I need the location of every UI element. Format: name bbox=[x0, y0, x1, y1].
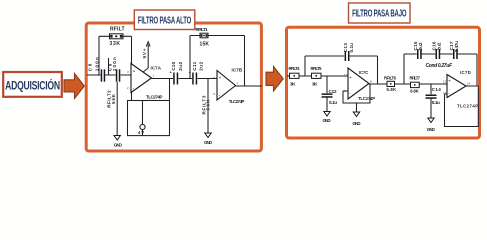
svg-text:6.8K: 6.8K bbox=[410, 89, 419, 94]
svg-text:C12: C12 bbox=[329, 89, 337, 94]
svg-text:6.8K: 6.8K bbox=[387, 87, 397, 92]
svg-text:IC7B: IC7B bbox=[232, 67, 243, 72]
svg-text:0.47u: 0.47u bbox=[454, 41, 459, 52]
svg-text:2u2: 2u2 bbox=[437, 42, 442, 50]
svg-text:C11: C11 bbox=[192, 61, 197, 70]
svg-text:C10: C10 bbox=[171, 61, 176, 70]
svg-text:ADQUISICIÓN: ADQUISICIÓN bbox=[5, 78, 60, 93]
svg-text:100n: 100n bbox=[95, 57, 100, 71]
svg-text:0.1u: 0.1u bbox=[349, 43, 354, 53]
svg-text:2u2: 2u2 bbox=[418, 42, 423, 50]
svg-text:C14: C14 bbox=[432, 87, 441, 92]
svg-text:3K: 3K bbox=[312, 82, 318, 87]
svg-text:0.1u: 0.1u bbox=[432, 100, 440, 105]
svg-text:IC7D: IC7D bbox=[460, 70, 471, 75]
svg-text:4V: 4V bbox=[138, 130, 144, 135]
svg-text:GND: GND bbox=[114, 142, 123, 147]
svg-text:+: + bbox=[350, 76, 352, 80]
svg-text:C8: C8 bbox=[88, 63, 93, 71]
svg-text:-: - bbox=[449, 91, 450, 95]
svg-text:TLC274P: TLC274P bbox=[146, 94, 162, 99]
svg-text:33K: 33K bbox=[110, 41, 121, 47]
svg-text:10: 10 bbox=[344, 73, 348, 77]
svg-text:IC7A: IC7A bbox=[151, 66, 162, 71]
svg-text:-: - bbox=[133, 87, 134, 91]
svg-text:TLC274P: TLC274P bbox=[229, 99, 245, 104]
svg-text:RFILT5: RFILT5 bbox=[311, 66, 323, 71]
svg-text:15K: 15K bbox=[200, 42, 210, 48]
svg-text:GND: GND bbox=[427, 127, 436, 132]
svg-text:TLC274P: TLC274P bbox=[457, 104, 478, 109]
svg-text:9V+: 9V+ bbox=[142, 48, 147, 58]
svg-text:0.1u: 0.1u bbox=[329, 100, 337, 105]
svg-text:GND: GND bbox=[204, 140, 213, 145]
svg-text:FILTRO PASA ALTO: FILTRO PASA ALTO bbox=[138, 15, 192, 26]
svg-text:TLC274P: TLC274P bbox=[358, 96, 375, 101]
svg-text:3K: 3K bbox=[290, 82, 296, 87]
svg-text:GND: GND bbox=[323, 118, 332, 123]
svg-text:Cond 0.27uF: Cond 0.27uF bbox=[426, 63, 453, 69]
svg-text:+: + bbox=[219, 76, 221, 80]
svg-text:+: + bbox=[133, 70, 135, 74]
svg-text:+: + bbox=[449, 79, 451, 83]
svg-text:FILTRO PASA BAJO: FILTRO PASA BAJO bbox=[352, 8, 407, 19]
svg-text:-: - bbox=[350, 92, 351, 96]
svg-text:-: - bbox=[219, 93, 220, 97]
svg-text:12: 12 bbox=[443, 80, 447, 84]
svg-text:2u2: 2u2 bbox=[199, 61, 204, 70]
svg-text:RFILT6: RFILT6 bbox=[384, 75, 397, 80]
svg-text:RFILT4: RFILT4 bbox=[289, 66, 301, 71]
svg-text:56K: 56K bbox=[111, 93, 116, 104]
svg-text:IC7C: IC7C bbox=[359, 70, 369, 75]
svg-text:RFILT7: RFILT7 bbox=[410, 76, 421, 81]
svg-text:C13: C13 bbox=[343, 43, 348, 53]
svg-text:2u2: 2u2 bbox=[178, 61, 183, 70]
svg-text:13: 13 bbox=[443, 91, 447, 95]
svg-text:14: 14 bbox=[467, 82, 471, 86]
svg-text:56K: 56K bbox=[206, 99, 211, 111]
svg-text:GND: GND bbox=[352, 121, 361, 126]
svg-text:RFILT: RFILT bbox=[110, 27, 125, 33]
svg-text:RFILT1: RFILT1 bbox=[196, 27, 209, 32]
svg-text:100n: 100n bbox=[112, 57, 117, 71]
